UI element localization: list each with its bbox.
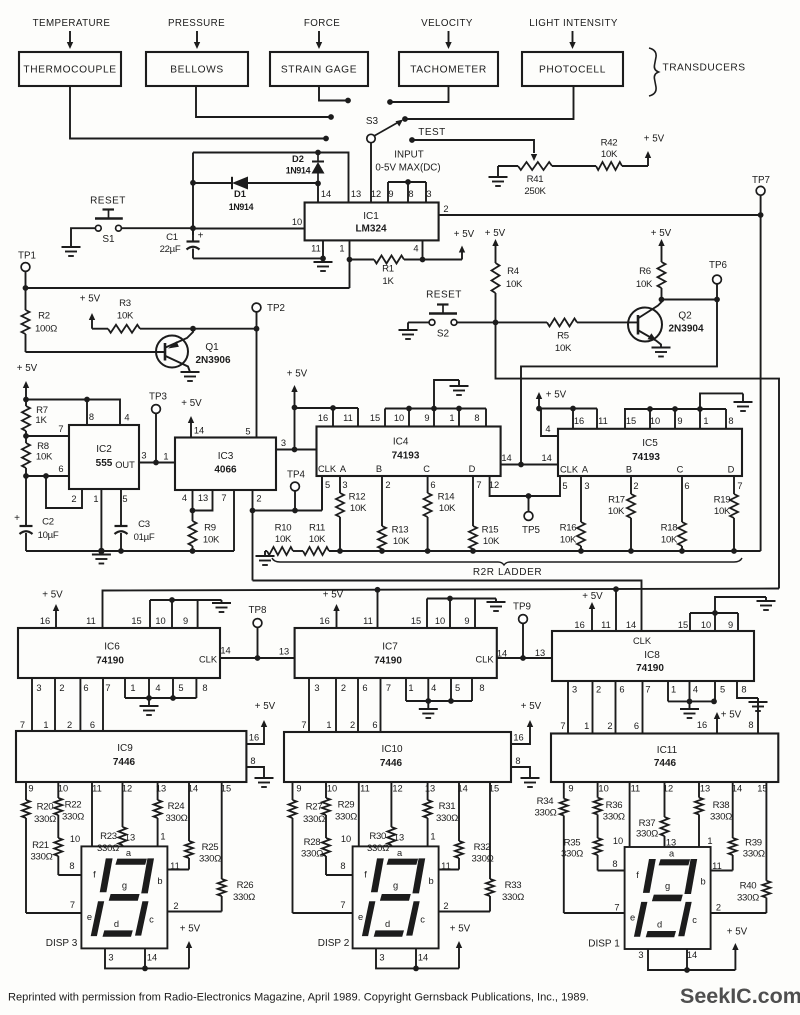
resistor R3 10K — [92, 298, 140, 333]
svg-text:2: 2 — [607, 721, 612, 731]
svg-text:2: 2 — [385, 480, 390, 490]
svg-text:1N914: 1N914 — [229, 202, 254, 212]
wire TP6 down to clk line — [521, 300, 717, 465]
svg-text:R23: R23 — [100, 831, 117, 842]
power +5V at DISP1 — [727, 926, 748, 970]
svg-text:+ 5V: + 5V — [17, 363, 38, 374]
wire IC7 pin11 stub — [377, 590, 379, 628]
ground at IC6 top — [212, 600, 231, 612]
wire strain gage to node — [319, 86, 346, 101]
resistor R4 10K — [492, 248, 523, 322]
ground at S1 — [62, 247, 81, 256]
wire R32 to disp pin11 — [439, 869, 459, 871]
wire Q2 collector to TP6 — [662, 299, 718, 301]
power +5V at IC3 — [181, 398, 202, 438]
svg-text:D: D — [728, 465, 735, 475]
resistor R22 330 — [54, 782, 84, 823]
node IC8 bracket — [712, 610, 718, 616]
wire S2 to ground — [408, 322, 429, 330]
capacitor C1 22uF — [160, 228, 204, 258]
label INPUT — [394, 150, 423, 161]
wire R42 to +5V — [622, 165, 648, 167]
svg-text:+ 5V: + 5V — [181, 398, 202, 409]
svg-text:9: 9 — [296, 784, 301, 794]
resistor R30 330 — [367, 782, 395, 854]
svg-text:R2R LADDER: R2R LADDER — [473, 567, 542, 578]
wire IC10 pin16 to +5V — [511, 738, 530, 744]
test point TP4 — [287, 470, 306, 509]
node S2 R4 R5 — [493, 320, 499, 326]
svg-text:2: 2 — [341, 683, 346, 693]
svg-text:12: 12 — [392, 784, 402, 794]
label RESET S2 — [426, 290, 462, 301]
label TRANSDUCERS — [662, 63, 745, 74]
label disp1 pin14 — [687, 950, 697, 960]
node strain gage throw — [345, 98, 351, 104]
svg-text:330Ω: 330Ω — [34, 814, 56, 825]
resistor R7 1K — [22, 400, 48, 437]
svg-text:8: 8 — [474, 413, 479, 423]
label disp3 pin8 — [69, 861, 74, 871]
label LIGHT INTENSITY — [529, 18, 618, 29]
resistor R9 10K — [189, 511, 220, 552]
svg-text:15: 15 — [131, 616, 141, 626]
node D2 top — [315, 150, 321, 156]
test point TP9 — [513, 602, 531, 657]
svg-text:R8: R8 — [37, 441, 49, 452]
svg-text:15: 15 — [678, 620, 688, 630]
svg-text:01µF: 01µF — [134, 532, 155, 543]
wire IC5 pin4 loop — [541, 409, 558, 437]
display DISP3 — [46, 846, 168, 949]
svg-text:74190: 74190 — [96, 656, 124, 667]
svg-text:5: 5 — [455, 683, 460, 693]
label disp2 pin10 — [341, 834, 351, 844]
label disp1 pin11 — [712, 861, 722, 871]
wire IC2 out to IC3 — [139, 462, 175, 464]
resistor R41 — [518, 162, 552, 197]
svg-text:LM324: LM324 — [355, 224, 387, 235]
node rail R19 — [731, 548, 737, 554]
power +5V at R42 — [644, 134, 665, 167]
switch S3 wiper — [367, 120, 403, 143]
svg-text:IC5: IC5 — [642, 438, 658, 449]
svg-text:330Ω: 330Ω — [367, 843, 389, 854]
node IC4 pin10 — [406, 406, 412, 412]
svg-text:11: 11 — [343, 413, 353, 423]
svg-text:10: 10 — [598, 784, 608, 794]
switch S1 — [95, 210, 123, 246]
resistor R16 10K — [560, 476, 585, 551]
label disp1 pin8 — [612, 859, 617, 869]
svg-text:7: 7 — [476, 480, 481, 490]
wire disp2 bottom pins — [376, 948, 459, 968]
svg-text:11: 11 — [631, 784, 641, 794]
wire IC10 pin8 to gnd — [511, 767, 530, 778]
node IC6 pin4 — [146, 695, 152, 701]
svg-text:1: 1 — [449, 413, 454, 423]
svg-text:9: 9 — [677, 416, 682, 426]
wire IC9 pin16 to +5V — [246, 738, 264, 744]
wire IC1 pin 11 stub — [322, 240, 324, 262]
label disp2 pin2 — [443, 901, 448, 911]
label disp2 pin13 — [394, 833, 404, 843]
svg-text:7446: 7446 — [113, 757, 136, 768]
svg-text:6: 6 — [58, 464, 63, 474]
resistor R40 330 — [737, 782, 770, 913]
svg-text:+ 5V: + 5V — [287, 369, 308, 380]
svg-text:330Ω: 330Ω — [335, 812, 357, 823]
ic IC6 74190 — [18, 616, 231, 693]
transducer box BELLOWS — [146, 52, 248, 86]
wire IC2 pin 8 stub — [86, 400, 88, 426]
svg-text:c: c — [149, 914, 154, 924]
svg-text:TEMPERATURE: TEMPERATURE — [33, 18, 111, 29]
svg-text:5: 5 — [178, 683, 183, 693]
svg-text:R21: R21 — [32, 840, 49, 851]
svg-text:11: 11 — [441, 861, 451, 871]
svg-text:5: 5 — [562, 481, 567, 491]
svg-text:2: 2 — [256, 494, 261, 504]
wire to +5V right of R1 — [423, 259, 463, 261]
wire R26 to disp pin2 — [167, 911, 221, 913]
svg-text:R33: R33 — [505, 880, 522, 891]
svg-text:1: 1 — [160, 832, 165, 842]
svg-text:330Ω: 330Ω — [62, 812, 84, 823]
svg-text:R16: R16 — [560, 523, 577, 534]
svg-text:S2: S2 — [437, 329, 450, 340]
node tachometer throw — [387, 99, 393, 105]
arrow TEMPERATURE into box — [67, 31, 73, 49]
wire IC5 pins bracket — [624, 409, 726, 429]
power +5V at IC2 — [17, 363, 38, 400]
svg-text:f: f — [364, 869, 367, 879]
svg-text:11: 11 — [92, 784, 102, 794]
label TEST — [418, 127, 446, 138]
svg-text:3: 3 — [638, 950, 643, 960]
power +5V at IC9 — [255, 701, 276, 738]
wire IC7 data pins — [309, 678, 381, 732]
svg-text:1: 1 — [671, 685, 676, 695]
node D1 D2 junction — [315, 181, 321, 187]
wire rail r10 r11 — [293, 550, 303, 552]
svg-text:1: 1 — [163, 452, 168, 462]
node IC8 pin4 — [687, 699, 693, 705]
label IC11 pin16 — [697, 720, 707, 730]
svg-text:6: 6 — [83, 683, 88, 693]
wire S1 to C1 node — [121, 227, 193, 229]
wire IC3 pin 4 stub — [192, 490, 194, 511]
resistor R6 10K — [636, 248, 666, 300]
svg-text:a: a — [669, 849, 675, 859]
transistor Q1 2N3906 — [156, 329, 231, 372]
resistor R17 10K — [608, 476, 635, 551]
ground at R41 — [489, 166, 508, 186]
node IC7 pin5 — [448, 698, 454, 704]
svg-text:0-5V MAX(DC): 0-5V MAX(DC) — [375, 163, 440, 174]
node rail R18 — [679, 548, 685, 554]
transducer box STRAIN GAGE — [270, 52, 368, 86]
wire R3 to Q1 emitter node — [140, 328, 193, 330]
svg-text:330Ω: 330Ω — [199, 854, 221, 865]
resistor R35 330 — [561, 815, 602, 871]
svg-text:11: 11 — [712, 861, 722, 871]
label IC9 pin8 — [250, 756, 255, 766]
wire +5V to IC4 pin16 — [295, 407, 334, 409]
resistor R26 330 — [218, 782, 255, 912]
node disp3 pin14 — [142, 966, 148, 972]
svg-text:4066: 4066 — [214, 465, 237, 476]
node IC2 pin1 gnd — [98, 548, 104, 554]
resistor R2 100ohm — [22, 288, 58, 352]
node pin2 link — [43, 473, 49, 479]
svg-text:R12: R12 — [349, 492, 366, 503]
node Q1 emitter — [190, 326, 196, 332]
svg-text:R20: R20 — [37, 802, 54, 813]
svg-text:2N3904: 2N3904 — [668, 324, 703, 335]
ground at IC5 top — [734, 394, 753, 412]
svg-text:7: 7 — [560, 721, 565, 731]
svg-text:330Ω: 330Ω — [436, 813, 458, 824]
svg-text:R5: R5 — [557, 331, 569, 342]
node pin 8 stub — [84, 397, 90, 403]
svg-text:R42: R42 — [601, 138, 618, 149]
node IC5 pin9 — [672, 406, 678, 412]
svg-text:THERMOCOUPLE: THERMOCOUPLE — [23, 65, 116, 76]
node IC6 pin5 — [170, 695, 176, 701]
svg-text:4: 4 — [431, 683, 436, 693]
wire R41 left to ground — [498, 165, 518, 167]
node pin 11 ground — [320, 256, 326, 262]
label R2R LADDER — [473, 567, 542, 578]
wire IC4 gnd riser — [434, 380, 459, 409]
wire TEST to R41 wiper — [415, 140, 538, 161]
ic IC2 555 — [58, 412, 146, 504]
label disp1 pin3 — [638, 950, 643, 960]
svg-text:10K: 10K — [560, 535, 577, 546]
node pin 6 — [23, 473, 29, 479]
svg-text:8: 8 — [728, 416, 733, 426]
svg-text:11: 11 — [311, 244, 321, 254]
wire TP2 to IC3 pin 5 — [256, 329, 258, 438]
svg-text:1: 1 — [43, 720, 48, 730]
svg-text:2: 2 — [67, 720, 72, 730]
power +5V at DISP3 — [180, 924, 201, 969]
brace R2R ladder — [272, 558, 742, 565]
svg-text:TEST: TEST — [418, 127, 446, 138]
power +5V at IC7 — [323, 590, 344, 629]
svg-text:16: 16 — [249, 733, 259, 743]
wire R28 to disp pin8 — [326, 874, 353, 876]
label disp3 pin1 — [160, 832, 165, 842]
wire ladder rail — [329, 550, 761, 552]
svg-text:R17: R17 — [608, 495, 625, 506]
svg-text:TP5: TP5 — [522, 525, 541, 536]
ic IC11 7446 — [551, 734, 778, 794]
wire R33 to disp pin2 — [439, 911, 490, 913]
ic IC1 LM324 — [292, 189, 449, 254]
svg-text:IC8: IC8 — [644, 650, 660, 661]
resistor R23 330 — [97, 782, 126, 854]
power +5V at R3 — [80, 294, 101, 329]
transducer box THERMOCOUPLE — [19, 52, 121, 86]
svg-text:CLK: CLK — [475, 655, 494, 665]
node bellows throw — [328, 114, 334, 120]
svg-text:3: 3 — [314, 683, 319, 693]
wire IC1 pins 9 8 3 bracket — [388, 182, 426, 203]
svg-text:8: 8 — [250, 756, 255, 766]
wire IC8 pin8 to ground — [737, 681, 758, 698]
svg-text:5: 5 — [245, 427, 250, 437]
svg-text:+ 5V: + 5V — [323, 590, 344, 601]
wire R20 to disp pin7 — [26, 912, 81, 914]
ground at IC1 pin 11 — [314, 262, 333, 271]
svg-text:CLK: CLK — [560, 465, 579, 475]
svg-text:C3: C3 — [138, 519, 150, 530]
wire IC11 pin11 to disp — [629, 782, 631, 847]
svg-text:+ 5V: + 5V — [521, 701, 542, 712]
svg-text:74190: 74190 — [374, 656, 402, 667]
svg-text:+ 5V: + 5V — [454, 229, 475, 240]
wire IC1 pin 4 stub — [422, 240, 424, 259]
svg-text:10K: 10K — [608, 506, 625, 517]
wire R25 to disp pin11 — [167, 869, 189, 871]
ic IC5 74193 — [542, 416, 743, 491]
svg-text:10K: 10K — [555, 343, 572, 354]
label 0-5V MAX(DC) — [375, 163, 440, 174]
svg-text:2: 2 — [71, 494, 76, 504]
svg-text:S3: S3 — [366, 116, 379, 127]
wire disp1 bottom pins — [648, 949, 735, 970]
node IC7 pin4 — [425, 698, 431, 704]
node IC7 bracket — [447, 596, 453, 602]
svg-text:14: 14 — [626, 620, 636, 630]
ic IC8 74190 — [552, 620, 754, 695]
node IC4 pin4 node — [292, 447, 298, 453]
svg-text:10K: 10K — [439, 503, 456, 514]
svg-text:DISP 1: DISP 1 — [588, 939, 620, 950]
wire bellows to node — [196, 86, 329, 117]
svg-text:TP6: TP6 — [709, 260, 728, 271]
svg-text:TP4: TP4 — [287, 470, 306, 481]
node IC5 pin1 — [697, 406, 703, 412]
svg-text:12: 12 — [371, 189, 381, 199]
svg-text:+: + — [14, 513, 20, 524]
ground at IC4 top — [450, 380, 469, 395]
svg-text:15: 15 — [411, 616, 421, 626]
svg-text:CLK: CLK — [633, 636, 652, 646]
node IC5 plus5 — [536, 406, 542, 412]
ground at S2 — [399, 330, 418, 339]
svg-text:14: 14 — [497, 649, 507, 659]
svg-text:3: 3 — [379, 953, 384, 963]
svg-text:11: 11 — [360, 784, 370, 794]
svg-text:6: 6 — [684, 481, 689, 491]
resistor R5 10K — [496, 318, 578, 354]
svg-text:c: c — [692, 915, 697, 925]
svg-text:R34: R34 — [537, 796, 555, 807]
wire IC8 top bracket — [690, 613, 738, 631]
label IC9 in pins — [20, 720, 95, 730]
svg-text:74190: 74190 — [636, 663, 664, 674]
wire IC3 pin2 down — [252, 511, 254, 581]
svg-text:R26: R26 — [237, 880, 254, 891]
svg-text:7446: 7446 — [380, 758, 403, 769]
svg-text:9: 9 — [424, 413, 429, 423]
svg-text:1: 1 — [326, 720, 331, 730]
label TEMPERATURE — [33, 18, 111, 29]
node TP9 — [520, 655, 526, 661]
svg-text:+ 5V: + 5V — [255, 701, 276, 712]
svg-text:R10: R10 — [275, 523, 292, 534]
svg-text:10K: 10K — [36, 452, 53, 463]
svg-text:R24: R24 — [168, 801, 186, 812]
test point TP7 — [752, 175, 770, 213]
node pin 7 — [23, 433, 29, 439]
wire R35 to disp pin8 — [598, 870, 625, 872]
svg-text:8: 8 — [612, 859, 617, 869]
wire R34 to disp pin7 — [564, 912, 625, 914]
wire R5 to Q2 base — [577, 321, 638, 323]
caption reprint — [8, 992, 589, 1004]
svg-text:8: 8 — [408, 189, 413, 199]
svg-text:11: 11 — [363, 616, 373, 626]
svg-text:10K: 10K — [661, 535, 678, 546]
wire TP1 to IC1 pin 1 — [26, 287, 350, 289]
wire IC3 pin 13 loop — [193, 490, 213, 511]
resistor R12 10K — [336, 476, 367, 551]
svg-text:10: 10 — [155, 616, 165, 626]
svg-text:13: 13 — [125, 833, 135, 843]
node R1 left — [347, 257, 353, 263]
wire thermocouple to node — [70, 86, 324, 139]
wire R1 to pin 4 — [404, 259, 423, 261]
resistor R10 10K — [265, 523, 293, 556]
wire IC2 pin 7 — [26, 435, 69, 437]
node D1 anode — [190, 180, 196, 186]
wire R2 to Q1 base — [26, 351, 166, 353]
test point TP8 — [249, 605, 268, 656]
svg-text:10: 10 — [70, 834, 80, 844]
wire IC2 pin 1 stub — [100, 489, 102, 551]
svg-text:13: 13 — [700, 784, 710, 794]
wire photocell to node — [408, 86, 574, 119]
node rail R14 — [425, 548, 431, 554]
svg-text:8: 8 — [69, 861, 74, 871]
node C3 bottom — [118, 548, 124, 554]
svg-text:R25: R25 — [202, 842, 219, 853]
svg-text:14: 14 — [321, 189, 331, 199]
svg-text:DISP 2: DISP 2 — [318, 938, 350, 949]
svg-text:TP2: TP2 — [267, 303, 285, 314]
label disp1 pin2 — [716, 903, 721, 913]
wire IC8 pin11 stub — [615, 589, 617, 631]
svg-text:9: 9 — [728, 620, 733, 630]
svg-text:10K: 10K — [117, 311, 134, 322]
svg-text:250K: 250K — [524, 186, 546, 197]
wire IC7 bottom bracket — [406, 678, 472, 701]
svg-text:g: g — [665, 881, 670, 891]
svg-text:10µF: 10µF — [38, 530, 59, 541]
svg-text:+ 5V: + 5V — [727, 926, 748, 937]
ground at IC2 — [92, 552, 111, 564]
svg-text:74193: 74193 — [392, 451, 420, 462]
node plus5 ic4 — [292, 405, 298, 411]
svg-text:R39: R39 — [745, 838, 762, 849]
svg-text:4: 4 — [545, 424, 550, 434]
label IC10 in pins — [301, 720, 377, 730]
node IC8 pin11 load — [613, 586, 619, 592]
